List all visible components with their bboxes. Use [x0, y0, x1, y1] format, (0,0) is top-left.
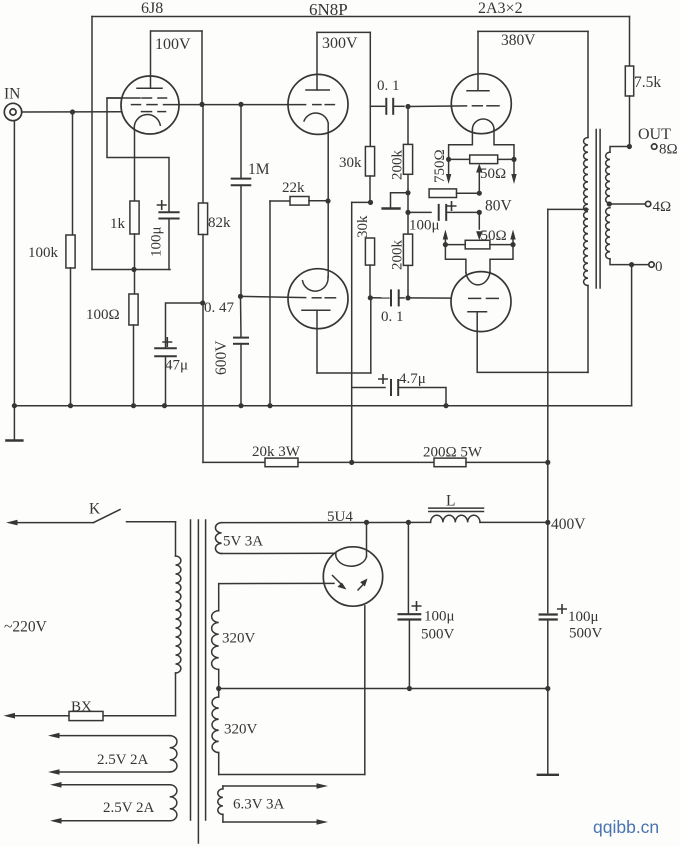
junction (408,192.8): [405, 190, 410, 195]
svg-text:600V: 600V: [213, 340, 230, 375]
wire 100k top lead: [72, 112, 74, 235]
junction (631.6,264.6): [629, 262, 634, 267]
tube V2 6N8P upper triode: [288, 74, 348, 134]
wire 0.1 upper right lead: [393, 105, 404, 107]
V1 grid row1: [107, 97, 140, 99]
junction (408.4,522.4): [406, 520, 411, 525]
wire V1 plate stem: [150, 31, 152, 88]
svg-text:100Ω: 100Ω: [86, 307, 120, 323]
core PT: [190, 520, 192, 820]
wire V6 cathode output: [366, 522, 368, 556]
junction (202.7,303): [200, 300, 205, 305]
wire 7.5k bottom lead: [629, 96, 631, 147]
wire 47u bottom lead: [165, 356, 167, 405]
capacitor 0.1 upper: [385, 99, 387, 114]
junction (351.7,462.4): [349, 460, 354, 465]
wire grid line to V3: [241, 296, 306, 297]
winding 320V #1: [219, 582, 324, 584]
svg-text:30k: 30k: [355, 215, 371, 238]
junction (446,405.7): [443, 403, 448, 408]
arrow mains line 2: [15, 715, 69, 717]
wire 200k upper bottom lead: [407, 174, 409, 212]
svg-text:100μ: 100μ: [149, 226, 165, 257]
svg-text:1k: 1k: [110, 216, 126, 232]
V4 plate bar: [467, 90, 489, 92]
V1 plate bar: [137, 87, 162, 89]
V1 cathode arc: [134, 115, 160, 130]
junction (547.8,462.4): [545, 460, 550, 465]
capacitor 100u 500V right: [558, 605, 566, 613]
wire to BX fuse: [103, 715, 176, 717]
terminal IN jack: [4, 103, 21, 120]
terminal 4ohm: [645, 201, 650, 206]
junction (202,104.4): [199, 102, 204, 107]
wire between 30k: [369, 176, 371, 202]
winding 2.5V #2: [62, 784, 170, 786]
junction (586,209.4): [584, 207, 588, 211]
V2 grid dashes: [313, 104, 321, 106]
wire to 4.7u branch: [352, 201, 371, 203]
svg-text:2.5V 2A: 2.5V 2A: [97, 752, 149, 768]
wire 300V box right / plate feed: [369, 32, 371, 146]
svg-text:~220V: ~220V: [4, 619, 48, 636]
junction (14.4,405.7): [12, 403, 17, 408]
tube V1 6J8 pentode: [121, 76, 179, 134]
resistor 200ohm 5W: [434, 458, 466, 467]
svg-text:2.5V 2A: 2.5V 2A: [103, 800, 155, 816]
svg-text:100μ: 100μ: [424, 609, 455, 625]
svg-text:320V: 320V: [224, 722, 258, 738]
wire switch to primary: [127, 521, 176, 523]
tube V3 6N8P lower triode: [288, 269, 348, 329]
wire 0.1 upper left lead: [370, 105, 384, 107]
svg-text:7.5k: 7.5k: [634, 74, 661, 91]
junction (241,405.7): [238, 403, 243, 408]
wire 0.47 top lead: [240, 296, 243, 337]
svg-text:6.3V 3A: 6.3V 3A: [233, 797, 285, 813]
wire 47u top lead: [166, 303, 203, 348]
wire 4 ohm tap: [609, 203, 645, 205]
wire 100u bias left lead: [408, 211, 431, 213]
junction (408,297.9): [405, 295, 410, 300]
svg-text:750Ω: 750Ω: [432, 149, 448, 183]
svg-text:BX: BX: [71, 699, 92, 715]
junction (133.5,405.7): [131, 403, 136, 408]
svg-text:6J8: 6J8: [141, 0, 163, 17]
junction (514,159.4): [511, 157, 516, 162]
plus 100u: [158, 201, 166, 209]
junction (270,405.7): [267, 403, 272, 408]
arrow filament supply lower-left: [444, 240, 446, 245]
svg-text:0. 1: 0. 1: [381, 309, 404, 325]
svg-text:8Ω: 8Ω: [659, 142, 678, 158]
wire ground rail: [14, 405, 631, 407]
wire V4 filament right: [494, 130, 514, 160]
wire wiper lower: [478, 212, 480, 229]
svg-text:0: 0: [655, 259, 663, 275]
winding 6.3V 3A: [218, 789, 223, 815]
wire to bias ground: [391, 193, 409, 208]
wire 100ohm bottom lead: [133, 325, 135, 406]
V2 plate bar: [306, 89, 329, 91]
wire 50ohm lower right lead: [490, 244, 513, 246]
svg-text:50Ω: 50Ω: [480, 166, 506, 182]
wire 100V box top: [151, 30, 202, 32]
capacitor 0.1 lower: [390, 290, 392, 305]
terminal 0: [649, 262, 654, 267]
wire 50ohm upper right lead: [498, 158, 514, 160]
V1 grid row2 dashes: [132, 104, 141, 106]
V1 grid row3 dashes: [142, 111, 152, 113]
svg-text:30k: 30k: [339, 155, 362, 171]
wire screen to 100u cap: [107, 98, 169, 212]
svg-text:80V: 80V: [485, 198, 513, 215]
wire 380V line: [478, 30, 588, 32]
plus 47u: [163, 338, 171, 346]
coil PT primary: [176, 556, 181, 673]
wire V5 plate to OPT: [477, 312, 588, 373]
arrow filament supply upper-left: [448, 159, 450, 174]
wire 4.7u left lead: [352, 387, 385, 389]
wire primary bottom lead: [175, 673, 177, 716]
coil choke L: [431, 515, 480, 522]
wire 300V box top: [317, 31, 370, 33]
resistor 100ohm: [129, 294, 138, 325]
wire choke to 400V: [480, 521, 548, 523]
wiper arrow 50ohm lower: [476, 231, 482, 240]
resistor 50ohm lower: [465, 240, 490, 249]
svg-text:L: L: [446, 493, 455, 510]
resistor 750ohm: [429, 189, 456, 198]
wire 200k upper top lead: [407, 107, 409, 145]
tube V5 2A3 lower: [451, 272, 511, 332]
junction (445.4,244.6): [443, 242, 448, 247]
V5 filament arc: [466, 273, 490, 285]
wire B+ vertical: [547, 209, 549, 612]
wire 20k line left: [203, 461, 265, 463]
junction (547.8,522.4): [545, 520, 550, 525]
resistor 200k upper: [403, 144, 412, 174]
wire 750ohm right lead: [457, 192, 480, 194]
wire 100V box right: [201, 31, 203, 104]
wire OPT primary top feed: [587, 31, 589, 137]
wire left cap top lead: [407, 522, 409, 614]
resistor 30k upper: [365, 147, 374, 177]
resistor 30k lower: [365, 238, 374, 265]
svg-text:qqibb.cn: qqibb.cn: [593, 817, 659, 837]
wire 200k lower top lead: [407, 212, 409, 234]
svg-text:4Ω: 4Ω: [653, 199, 672, 215]
wire 0.47 bottom lead: [240, 344, 242, 406]
wire IN to grid: [22, 111, 121, 113]
junction (328,201): [325, 198, 330, 203]
wire 82k top lead: [202, 104, 204, 203]
tube V6 5U4: [323, 547, 382, 606]
wire V5 filament right: [490, 245, 513, 273]
V4 grid dashes: [472, 105, 482, 107]
junction (370.3,297.8): [368, 295, 373, 300]
svg-text:100V: 100V: [155, 36, 191, 53]
terminal 8ohm: [652, 144, 657, 149]
svg-text:300V: 300V: [322, 35, 358, 52]
svg-text:100μ: 100μ: [409, 218, 440, 234]
wire 0 tap to ground rail: [631, 265, 633, 406]
wire primary top lead: [175, 522, 177, 556]
wire 1M bottom lead: [240, 185, 242, 296]
V6 plate right arrow: [358, 583, 365, 590]
wire 200ohm right lead: [466, 461, 548, 463]
junction (72.5,112): [70, 109, 75, 114]
capacitor 0.47: [234, 337, 248, 339]
resistor 82k: [198, 203, 207, 235]
wire V3 plate to 30k node: [317, 372, 371, 374]
capacitor 1M: [232, 178, 251, 180]
wire cathode junction horizontal: [92, 269, 170, 271]
wire V2 plate stem: [316, 32, 318, 90]
wire up to 0.1 node: [370, 298, 372, 373]
wire feedback left drop: [91, 17, 93, 270]
junction (547.8,688.5): [545, 686, 550, 691]
svg-text:0. 47: 0. 47: [204, 300, 235, 316]
wire 5V bottom to 5U4 filament: [222, 552, 335, 554]
junction (479.3,212.4): [477, 210, 482, 215]
junction (609.3,204): [607, 201, 612, 206]
wire V6 plate bottom lead: [364, 606, 366, 775]
wire V1 plate line to V2 grid: [164, 104, 306, 106]
junction (366.5,522.4): [364, 520, 369, 525]
junction (370.5,202.4): [368, 200, 373, 205]
wire feedback rail top: [92, 16, 630, 18]
winding 2.5V #1: [60, 735, 170, 737]
svg-text:OUT: OUT: [638, 126, 671, 143]
capacitor 100u cathode: [159, 211, 178, 213]
junction (629.4,146.5): [627, 144, 632, 149]
junction (408,106.5): [405, 104, 410, 109]
svg-text:4.7μ: 4.7μ: [399, 371, 426, 387]
junction (448.6,159.4): [446, 157, 451, 162]
resistor 50ohm upper: [470, 155, 498, 164]
wire 4.7u right lead: [398, 388, 446, 406]
svg-text:100μ: 100μ: [568, 609, 599, 625]
svg-text:380V: 380V: [501, 32, 536, 49]
resistor 1k: [130, 201, 139, 234]
svg-text:500V: 500V: [569, 626, 603, 642]
svg-text:5V 3A: 5V 3A: [223, 534, 263, 550]
wire to V5 grid: [408, 297, 451, 299]
plus 100u bias: [447, 202, 455, 210]
svg-text:20k 3W: 20k 3W: [252, 444, 301, 460]
wire 22k ground return: [269, 201, 271, 406]
wire 320V bottom to 5U4 plate: [219, 774, 365, 776]
resistor 22k: [290, 197, 309, 206]
V3 cathode arc: [303, 277, 329, 291]
svg-text:0. 1: 0. 1: [377, 78, 400, 94]
resistor 100k: [66, 235, 75, 268]
capacitor 4.7u: [390, 380, 392, 395]
V5 grid dashes: [469, 297, 481, 299]
svg-text:50Ω: 50Ω: [481, 228, 507, 244]
wire V4 plate stem: [477, 31, 479, 90]
resistor 200k lower: [403, 234, 412, 265]
V4 filament arc: [472, 119, 494, 130]
junction (479.3,193.2): [477, 191, 482, 196]
svg-text:IN: IN: [4, 86, 20, 103]
wire 50ohm lower left lead: [445, 244, 465, 246]
svg-text:500V: 500V: [421, 627, 455, 643]
core OPT: [595, 130, 597, 289]
fuse BX: [69, 711, 103, 720]
wire V5 filament left: [445, 245, 466, 273]
wire left cap bottom lead: [408, 620, 410, 689]
arrow filament supply lower-right: [512, 240, 514, 245]
core choke: [429, 507, 484, 509]
wire to V4 grid: [408, 105, 467, 108]
resistor 20k 3W: [265, 458, 298, 467]
wiper arrow 50ohm upper: [478, 172, 480, 193]
wire OPT primary bottom feed: [587, 286, 589, 373]
svg-text:1M: 1M: [248, 161, 270, 178]
junction (70.5,405.7): [68, 403, 73, 408]
ground right: [547, 689, 549, 775]
wire V3 plate stem: [316, 310, 318, 373]
junction (164.5,405.7): [162, 403, 167, 408]
svg-text:200k: 200k: [390, 240, 406, 271]
wire 82k down to 20k line: [202, 235, 204, 463]
capacitor 100u bias: [438, 205, 440, 220]
capacitor 47u: [155, 347, 176, 349]
ground left: [13, 406, 15, 441]
wire 22k left lead: [270, 200, 290, 202]
winding 5V 3A: [215, 523, 221, 554]
wire 5V top / B+ line: [222, 521, 431, 523]
wire 100k bottom lead: [70, 268, 72, 406]
V3 plate bar: [302, 309, 330, 311]
wire V1 cathode lead: [134, 130, 136, 201]
wire right cap bottom lead: [547, 620, 549, 689]
wire V2 cathode lead: [327, 124, 329, 202]
V3 grid dashes: [312, 297, 321, 299]
svg-text:6N8P: 6N8P: [309, 0, 348, 19]
svg-text:100k: 100k: [28, 245, 59, 261]
junction (240.5,296.4): [238, 294, 243, 299]
ground bias bar: [383, 207, 400, 209]
wire 100u bias right lead: [446, 211, 479, 213]
wire 4.7u branch vertical: [351, 202, 353, 462]
wire 1k to 100ohm: [134, 234, 136, 294]
junction (134,269.5): [131, 267, 136, 272]
wire 0.1 lower left lead: [370, 297, 389, 299]
wire IN ground drop: [13, 121, 15, 406]
wire 0.1 lower right lead: [399, 297, 404, 299]
coil OPT secondary: [610, 147, 629, 153]
svg-text:K: K: [89, 501, 101, 518]
wire 30k lower bottom lead: [369, 265, 371, 298]
wire OPT primary centre tap: [548, 208, 588, 210]
resistor 7.5k: [625, 66, 633, 96]
arrow filament supply upper-right: [513, 159, 515, 174]
wire PS ground rail: [219, 688, 548, 690]
svg-text:22k: 22k: [282, 180, 305, 196]
svg-text:82k: 82k: [208, 215, 231, 231]
wire V4 filament left: [449, 130, 473, 160]
V2 cathode arc: [304, 113, 328, 123]
junction (513,244.6): [510, 242, 515, 247]
wire 7.5k top lead: [629, 17, 631, 67]
wire between 20k and 200ohm: [298, 461, 434, 463]
svg-text:400V: 400V: [551, 516, 586, 533]
junction (409.4,688.5): [407, 686, 412, 691]
svg-text:200k: 200k: [390, 150, 406, 181]
V6 filament arc: [336, 553, 367, 567]
wire 200k lower bottom lead: [407, 265, 409, 298]
wire V2 cathode to V3 cathode: [327, 201, 329, 277]
wire 50ohm upper left lead: [449, 158, 470, 160]
V5 plate bar: [468, 311, 487, 313]
wire 100u bottom lead: [168, 219, 170, 270]
junction (218.7,688.5): [216, 686, 221, 691]
wire 0 tap: [610, 259, 649, 265]
plus 4.7u: [379, 375, 387, 383]
V6 plate left arrow: [324, 582, 334, 584]
coil OPT primary: [584, 138, 588, 286]
junction (408,212.4): [405, 210, 410, 215]
arrow mains line 1: [18, 522, 94, 524]
tube V4 2A3 upper: [451, 74, 511, 134]
svg-text:47μ: 47μ: [165, 358, 188, 374]
junction (241,104.4): [238, 102, 243, 107]
svg-text:2A3×2: 2A3×2: [478, 0, 523, 17]
wire 22k right lead: [309, 200, 328, 202]
switch K blade: [94, 510, 121, 523]
wire 1M top lead: [240, 104, 242, 178]
svg-text:320V: 320V: [222, 631, 256, 647]
svg-text:200Ω 5W: 200Ω 5W: [423, 445, 483, 461]
